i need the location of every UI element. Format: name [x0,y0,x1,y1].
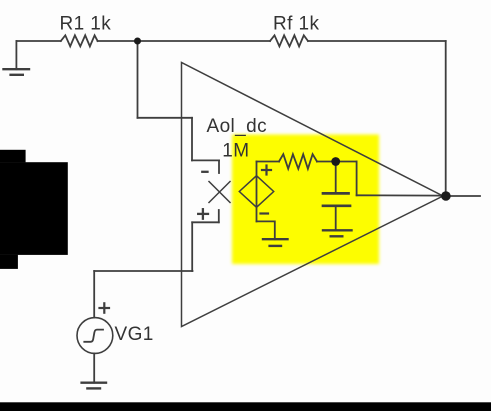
wire: VG1 rail horizontal [94,270,192,272]
wire: minus lead hook [218,160,220,173]
wire: node down to capacitor [335,162,337,193]
label - (inverting) [202,171,207,173]
wire: source to internal resistor [257,161,280,163]
redaction block lower tab [0,255,18,269]
redaction block top notch [0,150,26,163]
wire: minus lead horizontal [192,159,219,161]
node A (inverting summing junction) [134,38,141,45]
wire: step down to minus lead [191,118,193,161]
label + (non-inverting) [198,209,208,219]
wire: output stub [446,195,480,197]
source VG1 [77,318,113,354]
svg-text:VG1: VG1 [115,324,154,345]
resistor Rf [270,35,308,46]
label + (VG1) [100,303,110,312]
wire: output tap vertical [356,162,358,196]
bottom black bar [0,402,491,411]
node B (internal RC node) [331,157,340,166]
label + (source) [262,166,271,175]
redaction block main [0,162,68,255]
wire: capacitor to ground [335,207,337,231]
multiplier X [209,182,230,203]
svg-text:1M: 1M [222,141,249,162]
wire: source bottom elbow [257,221,275,239]
capacitor plates [323,193,350,205]
wire: ground to R1 [16,40,60,42]
VG1 waveform [84,330,103,342]
wire: step down to VG1 rail [191,222,193,271]
highlight (yellow marker over internal model) [232,135,379,265]
svg-text:Aol_dc: Aol_dc [207,116,268,137]
wire: internal resistor to node [317,161,336,163]
resistor R1 [61,35,98,46]
wire: plus lead horizontal [192,221,219,223]
wire: inverting input horizontal [138,117,193,119]
wire: VG1 top lead [93,271,95,318]
wire: Rf to right corner [308,40,446,42]
ground (capacitor) [323,230,352,236]
node OUT [441,191,451,201]
wire: node to output tap [336,161,357,163]
ground (top-left) [4,41,30,75]
svg-text:Rf 1k: Rf 1k [273,13,319,34]
wire: feedback vertical [445,41,447,196]
ground (VG1) [82,383,106,389]
wire: R1 to inverting node [98,40,270,42]
label - (source) [261,212,269,214]
wire: plus lead hook [218,210,220,222]
wire: inverting input down from node [137,41,139,118]
wire: output tap to apex [357,194,444,196]
dependent source (diamond) vertical lead [256,162,258,222]
dependent source diamond [239,176,273,208]
svg-text:R1 1k: R1 1k [60,13,112,34]
ground (source) [263,239,288,246]
wire: VG1 bottom lead [93,353,95,382]
op-amp U1 triangle [182,63,444,327]
internal resistor [279,154,317,169]
